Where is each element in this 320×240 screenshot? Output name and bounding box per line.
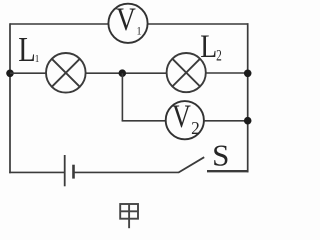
svg-text:V: V — [172, 100, 191, 135]
label L2 — [200, 28, 222, 66]
wire main row: junction to L1 — [10, 72, 46, 74]
wire main row: L1 to L2 — [86, 72, 167, 74]
wire top-left (left rail to V1) — [10, 23, 109, 25]
lamp L1 — [46, 53, 86, 93]
svg-text:1: 1 — [35, 53, 40, 65]
battery BT1 long plate — [64, 155, 66, 186]
wire battery to switch — [74, 171, 179, 173]
svg-text:S: S — [212, 139, 229, 173]
wire V2 to right rail — [204, 120, 248, 122]
voltmeter V2 — [166, 100, 204, 140]
wire right rail — [247, 23, 249, 172]
svg-text:2: 2 — [191, 118, 200, 138]
node D (right junction dot lower) — [244, 117, 252, 125]
node C (right junction dot upper) — [244, 70, 252, 78]
wire top-right (V1 to right rail) — [147, 23, 249, 25]
voltmeter V1 — [108, 0, 147, 42]
lamp L2 — [167, 53, 206, 92]
wire main row: L2 to right rail — [206, 72, 248, 74]
wire left rail — [9, 23, 11, 173]
wire V2 branch vertical — [121, 73, 123, 121]
wire V2 branch horizontal — [122, 120, 166, 122]
svg-text:1: 1 — [136, 26, 141, 38]
switch S blade — [178, 157, 204, 172]
svg-text:2: 2 — [216, 48, 222, 65]
node B (middle junction dot) — [119, 69, 127, 77]
battery BT1 short plate — [72, 165, 75, 179]
svg-text:L: L — [200, 28, 217, 65]
node A (left junction dot) — [6, 70, 14, 78]
wire bottom-left (left rail to battery) — [9, 171, 64, 173]
label L1 — [18, 29, 39, 68]
label caption 甲 (drawn strokes) — [120, 204, 138, 228]
svg-text:L: L — [18, 29, 36, 68]
switch S fixed contact — [207, 170, 249, 172]
svg-text:V: V — [116, 0, 136, 37]
